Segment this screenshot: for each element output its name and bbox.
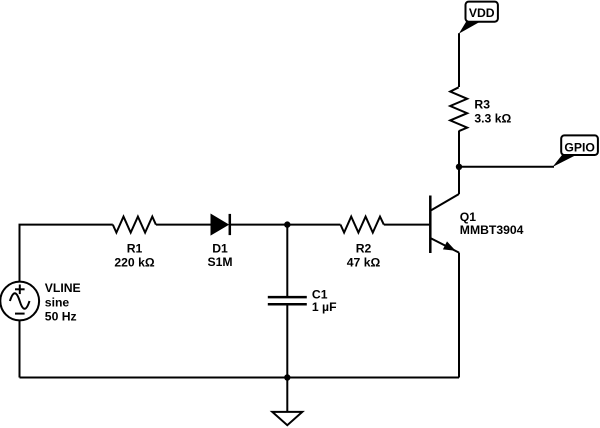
wire source-top to R1 bbox=[20, 225, 113, 282]
svg-text:VDD: VDD bbox=[469, 6, 495, 20]
wire C1 bottom to bottom rail bbox=[286, 305, 288, 377]
svg-text:sine: sine bbox=[45, 296, 70, 310]
resistor R2 bbox=[341, 217, 384, 233]
wire bottom rail bbox=[20, 377, 460, 379]
label C1 1 uF bbox=[312, 287, 337, 313]
svg-text:47 kΩ: 47 kΩ bbox=[347, 256, 381, 270]
node at collector/GPIO bbox=[456, 164, 462, 170]
wire VDD to R3 top bbox=[458, 33, 460, 87]
wire Q1 collector to node bbox=[458, 167, 460, 194]
wire source-bottom to bottom rail bbox=[19, 321, 21, 378]
label VLINE sine 50 Hz bbox=[45, 281, 81, 324]
svg-text:R1: R1 bbox=[127, 242, 143, 256]
label R3 3.3 k bbox=[474, 98, 511, 126]
label D1 S1M bbox=[207, 241, 232, 269]
diode D1 bbox=[211, 214, 230, 235]
wire node to C1 top bbox=[286, 225, 288, 296]
wire node to GPIO bbox=[459, 166, 554, 168]
net flag VDD bbox=[459, 2, 498, 34]
net flag GPIO bbox=[553, 135, 598, 167]
svg-text:50 Hz: 50 Hz bbox=[45, 310, 77, 324]
wire Q1 emitter to bottom rail bbox=[458, 253, 460, 378]
svg-text:1 µF: 1 µF bbox=[312, 300, 337, 314]
label R2 47 k bbox=[347, 242, 381, 270]
wire R1 to D1 bbox=[156, 224, 212, 226]
svg-text:GPIO: GPIO bbox=[564, 140, 594, 154]
transistor Q1 bbox=[430, 194, 459, 253]
resistor R3 bbox=[450, 87, 467, 131]
label Q1 MMBT3904 bbox=[460, 210, 524, 237]
node at C1 bottom rail bbox=[284, 374, 290, 380]
voltage source VLINE bbox=[0, 282, 39, 321]
svg-text:D1: D1 bbox=[212, 241, 228, 255]
svg-text:VLINE: VLINE bbox=[45, 281, 81, 295]
svg-text:R3: R3 bbox=[474, 98, 490, 112]
svg-text:S1M: S1M bbox=[207, 255, 232, 269]
svg-text:220 kΩ: 220 kΩ bbox=[114, 256, 154, 270]
svg-text:Q1: Q1 bbox=[460, 210, 476, 224]
ground bbox=[272, 378, 302, 426]
label R1 220 k bbox=[114, 242, 154, 270]
svg-text:MMBT3904: MMBT3904 bbox=[460, 223, 524, 237]
resistor R1 bbox=[113, 217, 156, 233]
svg-text:3.3 kΩ: 3.3 kΩ bbox=[474, 111, 511, 125]
wire R3 bottom to node bbox=[458, 131, 460, 167]
svg-text:R2: R2 bbox=[356, 242, 372, 256]
node at D1/C1 junction bbox=[284, 221, 290, 227]
capacitor C1 bbox=[268, 297, 307, 304]
wire D1 to R2 bbox=[230, 224, 341, 226]
wire R2 to Q1 base bbox=[384, 224, 430, 226]
